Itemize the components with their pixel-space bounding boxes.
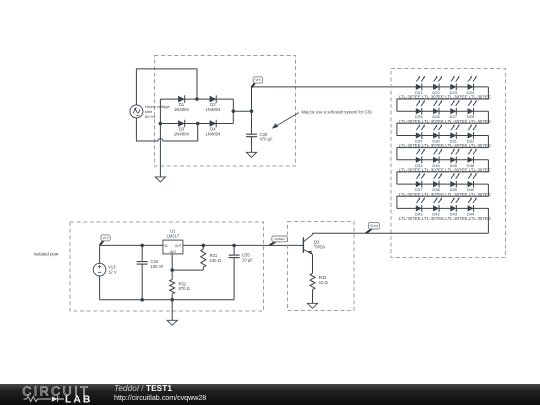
wire ADJ branch <box>172 269 203 271</box>
wire serpentine return row 3 <box>397 136 489 160</box>
wire bridge negative to ground <box>159 124 161 177</box>
CircuitLab logo <box>22 384 92 405</box>
svg-text:LTL-307EE,LTL-307EE,LTL-307EE,: LTL-307EE,LTL-307EE,LTL-307EE,LTL-307EE <box>399 168 491 173</box>
svg-text:LTL-307EE,LTL-307EE,LTL-307EE,: LTL-307EE,LTL-307EE,LTL-307EE,LTL-307EE <box>399 119 491 124</box>
wire C34 bottom <box>141 264 143 300</box>
LED D39 <box>450 173 459 188</box>
junction <box>232 244 236 248</box>
LED D43 <box>450 197 459 212</box>
voltage source V11 (Home voltage, sine 60 Hz) <box>130 105 143 118</box>
ground (rectifier negative) <box>155 177 165 182</box>
LED D37 <box>416 173 425 188</box>
junction <box>159 122 163 126</box>
LED D26 <box>433 100 442 115</box>
wire AC top to bridge midpoint <box>136 69 197 105</box>
transistor Q3 TIP50 <box>303 235 312 255</box>
net flag VHi <box>251 77 262 88</box>
ground (isolated supply) <box>167 320 177 325</box>
svg-text:VHi: VHi <box>255 78 261 82</box>
LED D21 <box>416 76 425 91</box>
junction <box>232 109 236 113</box>
LED D23 <box>450 76 459 91</box>
LED D22 <box>433 76 442 91</box>
wire R30 bottom <box>171 294 173 300</box>
resistor R31 (240 ohm) <box>201 249 206 267</box>
voltage source V13 (12 V) <box>93 263 106 276</box>
wire serpentine return row 4 <box>397 160 489 184</box>
LED D25 <box>416 100 425 115</box>
LED D34 <box>433 149 442 164</box>
ground (emitter) <box>307 303 317 308</box>
svg-text:100 nF: 100 nF <box>151 264 164 269</box>
svg-text:ADJ: ADJ <box>170 250 176 254</box>
svg-text:OUT: OUT <box>175 244 182 248</box>
junction <box>195 97 199 101</box>
wire VHi to LED row 1 <box>252 86 489 88</box>
svg-text:12 V: 12 V <box>108 270 117 275</box>
wire serpentine return row 5 <box>397 184 489 208</box>
net flag V12 <box>100 235 110 246</box>
svg-text:LTL-307EE,LTL-307EE,LTL-307EE,: LTL-307EE,LTL-307EE,LTL-307EE,LTL-307EE <box>399 95 491 100</box>
wire bottom rail <box>100 299 235 301</box>
diode D1 <box>178 95 185 103</box>
wire top rail to U1 IN <box>100 244 163 246</box>
LED D28 <box>468 100 477 115</box>
dashed enclosure box (isolated power section) <box>70 222 264 311</box>
capacitor C35 <box>229 255 240 258</box>
wire bridge right rail <box>232 99 234 123</box>
wire collector up <box>312 233 314 234</box>
diode D2 <box>210 95 217 103</box>
wire bridge top rail <box>160 98 233 100</box>
svg-text:240 Ω: 240 Ω <box>210 258 221 263</box>
diode D4 <box>210 120 217 128</box>
wire LED row 2 <box>397 110 489 112</box>
junction <box>140 244 144 248</box>
svg-text:870 Ω: 870 Ω <box>179 286 190 291</box>
wire C35 top <box>233 245 235 255</box>
wire bridge left rail <box>159 99 161 123</box>
dashed enclosure box (rectifier section) <box>155 56 296 167</box>
wire emitter down <box>312 254 314 273</box>
dashed enclosure box (LED array) <box>391 69 506 258</box>
junction <box>250 109 254 113</box>
wire VHi node vertical <box>251 87 253 134</box>
svg-text:LAB: LAB <box>65 395 92 405</box>
LED D44 <box>468 197 477 212</box>
svg-text:Teddol / TEST1: Teddol / TEST1 <box>114 384 172 393</box>
svg-text:10 Ω: 10 Ω <box>319 280 328 285</box>
net flag VLed <box>366 222 379 233</box>
wire LED row 6 <box>397 207 489 209</box>
LED D30 <box>433 124 442 139</box>
wire serpentine return row 2 <box>397 111 489 135</box>
svg-text:1N4004: 1N4004 <box>205 132 221 137</box>
wire R31 top <box>202 245 204 249</box>
dashed enclosure box (driver section) <box>288 222 355 311</box>
junction <box>140 298 144 302</box>
svg-text:LTL-307EE,LTL-307EE,LTL-307EE,: LTL-307EE,LTL-307EE,LTL-307EE,LTL-307EE <box>399 143 491 148</box>
wire V13 top <box>99 245 101 263</box>
regulator U1 LM317 <box>163 240 183 254</box>
wire V13 bottom <box>99 276 101 300</box>
diode D3 <box>178 120 185 128</box>
junction <box>170 268 174 272</box>
LED D42 <box>433 197 442 212</box>
wire LED row 3 <box>397 135 489 137</box>
wire serpentine return row 1 <box>397 87 489 111</box>
wire LED row 5 <box>397 183 489 185</box>
LED D35 <box>450 149 459 164</box>
junction <box>170 298 174 302</box>
LED D41 <box>416 197 425 212</box>
svg-text:1N4004: 1N4004 <box>174 132 190 137</box>
LED D27 <box>450 100 459 115</box>
svg-text:LTL-307EE,LTL-307EE,LTL-307EE,: LTL-307EE,LTL-307EE,LTL-307EE,LTL-307EE <box>399 216 491 221</box>
junction <box>202 244 206 248</box>
svg-text:470 µF: 470 µF <box>260 137 274 142</box>
LED D33 <box>416 149 425 164</box>
svg-text:VLed: VLed <box>370 224 378 228</box>
LED D36 <box>468 149 477 164</box>
wire C35 bottom <box>233 258 235 300</box>
svg-text:60 Hz: 60 Hz <box>145 114 155 119</box>
svg-text:Isolated pow: Isolated pow <box>34 252 59 257</box>
LED D24 <box>468 76 477 91</box>
wire C34 top <box>141 245 143 261</box>
wire R33 to ground <box>312 290 314 304</box>
wire LED row 4 <box>397 159 489 161</box>
capacitor C30 <box>246 134 257 137</box>
svg-text:1N4004: 1N4004 <box>205 107 221 112</box>
LED D38 <box>433 173 442 188</box>
svg-text:http://circuitlab.com/cvqww28: http://circuitlab.com/cvqww28 <box>114 394 206 402</box>
wire bridge output <box>233 110 251 112</box>
wire U1 OUT to Q3 base <box>183 244 304 246</box>
svg-text:TIP50: TIP50 <box>314 244 326 249</box>
svg-text:LM317: LM317 <box>166 233 179 238</box>
wire R31 bottom <box>202 267 204 270</box>
svg-text:10 µF: 10 µF <box>242 257 253 262</box>
svg-text:1N4004: 1N4004 <box>174 107 190 112</box>
net flag NODE4 <box>270 236 288 245</box>
wire bridge bottom rail <box>160 123 233 125</box>
LED D40 <box>468 173 477 188</box>
wire AC bottom to bridge midpoint (hop over ground wire) <box>136 118 197 141</box>
svg-text:LTL-307EE,LTL-307EE,LTL-307EE,: LTL-307EE,LTL-307EE,LTL-307EE,LTL-307EE <box>399 192 491 197</box>
wire ADJ down <box>171 254 173 280</box>
svg-text:May be use a soft-start system: May be use a soft-start system for C30 <box>302 110 373 115</box>
wire LED string output <box>487 208 489 233</box>
junction <box>196 122 200 126</box>
svg-text:V12: V12 <box>103 236 109 240</box>
LED D32 <box>468 124 477 139</box>
annotation arrow to C30 <box>272 113 299 129</box>
resistor R33 (10 ohm) <box>310 273 315 289</box>
wire C30 to ground <box>251 137 253 153</box>
wire to ground (isolated supply) <box>171 300 173 321</box>
LED D31 <box>450 124 459 139</box>
capacitor C34 <box>137 262 148 265</box>
ground (below C30) <box>246 152 256 157</box>
wire collector to LED return <box>313 232 489 234</box>
LED D29 <box>416 124 425 139</box>
resistor R32 (870 ohm) <box>170 279 175 294</box>
svg-text:NODE4: NODE4 <box>274 237 285 241</box>
